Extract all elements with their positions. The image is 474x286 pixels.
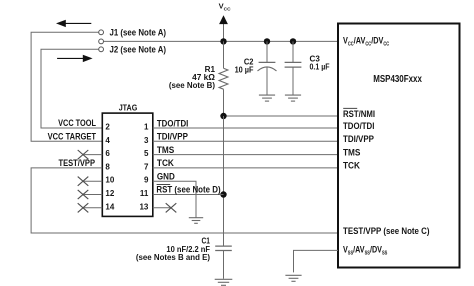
no-connect pin 14 [78,203,103,212]
ground below C1 [215,279,233,285]
pin numbers 2-14 (left column) [105,123,114,212]
ground at Vss [285,275,301,281]
pin numbers 1-13 (right column) [139,123,148,212]
svg-text:VCC: VCC [219,2,231,13]
ground at JTAG GND [189,218,203,224]
resistor R1 [219,41,228,116]
arrow from debug tool (right) [57,55,93,62]
wire TCK [153,167,338,169]
svg-text:J1 (see Note A): J1 (see Note A) [110,28,167,38]
value label R1 47 kOhm [169,65,216,90]
svg-text:13: 13 [139,202,148,211]
svg-text:VCC TOOL: VCC TOOL [58,118,96,128]
svg-text:VCC TARGET: VCC TARGET [48,132,97,142]
svg-text:GND: GND [157,172,175,182]
value label C3 0.1 uF [310,55,330,72]
wire Vss to ground [294,250,339,272]
arrow to debug tool (left) [56,20,91,27]
svg-text:11: 11 [140,189,149,198]
jumper common pin [99,39,104,44]
wire J1 pin to VCC TARGET (JTAG pin 4) [31,32,102,141]
svg-text:RST/NMI: RST/NMI [343,109,375,119]
svg-text:J2 (see Note A): J2 (see Note A) [110,44,167,54]
svg-text:1: 1 [144,123,149,132]
svg-text:TEST/VPP: TEST/VPP [59,158,96,168]
svg-text:TDI/VPP: TDI/VPP [157,132,188,142]
wire RST/NMI rail [224,115,339,117]
pin label RST/NMI with overbar [343,108,375,119]
wire GND from pin 9 [153,181,196,217]
no-connect pin 10 [78,177,103,186]
svg-text:(see Notes B and E): (see Notes B and E) [136,253,210,262]
svg-text:JTAG: JTAG [119,103,138,112]
wire J2 pin to VCC TOOL (JTAG pin 2) [41,49,102,128]
svg-text:10 µF: 10 µF [235,65,254,74]
no-connect pin 6 [78,150,103,159]
svg-text:MSP430Fxxx: MSP430Fxxx [373,73,422,85]
svg-text:(see Note B): (see Note B) [169,81,215,90]
no-connect pin 13 [153,203,177,212]
svg-text:TDO/TDI: TDO/TDI [157,118,188,128]
svg-text:VSS/AVSS/DVSS: VSS/AVSS/DVSS [343,245,388,257]
value label C1 10 nF/2.2 nF [136,236,211,261]
svg-text:14: 14 [105,202,114,211]
wire RST from pin 11 [153,194,224,196]
junction Vcc/R1 [220,38,226,44]
svg-text:0.1 µF: 0.1 µF [310,63,330,72]
wire TDO/TDI [153,127,338,129]
wire TDI/VPP [153,140,338,142]
svg-text:2: 2 [105,123,110,132]
ground below C2 [259,95,275,101]
svg-text:4: 4 [105,136,110,145]
wire Vcc rail [104,40,338,42]
svg-text:TCK: TCK [343,161,360,171]
power symbol Vcc [219,15,228,41]
junction RST/JTAG pin 11 [220,191,226,197]
label RST (see Note D) with overbar [156,184,220,194]
capacitor C1 [215,246,232,279]
wire TEST/VPP from pin 8 [31,168,338,233]
no-connect pin 12 [78,190,103,199]
jumper J2 pin [99,47,104,52]
value label C2 10 uF [235,57,254,74]
svg-text:TEST/VPP (see Note C): TEST/VPP (see Note C) [343,226,430,236]
svg-text:VCC/AVCC/DVCC: VCC/AVCC/DVCC [343,36,390,48]
svg-text:8: 8 [105,162,110,171]
svg-text:TDI/VPP: TDI/VPP [343,134,374,144]
svg-text:TMS: TMS [157,145,174,155]
svg-text:RST (see Note D): RST (see Note D) [156,184,220,194]
capacitor C2 [258,41,277,94]
jumper J1 pin [99,30,104,35]
wire TMS [153,154,338,156]
svg-text:TDO/TDI: TDO/TDI [343,121,374,131]
svg-text:9: 9 [144,176,149,185]
ground below C3 [285,95,301,101]
svg-text:3: 3 [144,136,149,145]
svg-text:6: 6 [105,149,110,158]
svg-text:12: 12 [105,189,114,198]
capacitor C3 [285,41,302,94]
svg-text:7: 7 [144,162,149,171]
junction R1/RST [220,113,226,119]
svg-text:10: 10 [105,176,114,185]
svg-text:5: 5 [144,149,149,158]
JTAG connector box [102,113,153,216]
junction Vcc/C3 [290,38,296,44]
junction Vcc/C2 [264,38,270,44]
wire RST vertical to C1 [223,116,225,246]
svg-text:TMS: TMS [343,147,360,157]
MCU U1 MSP430Fxxx box [338,24,460,268]
svg-text:TCK: TCK [157,158,174,168]
